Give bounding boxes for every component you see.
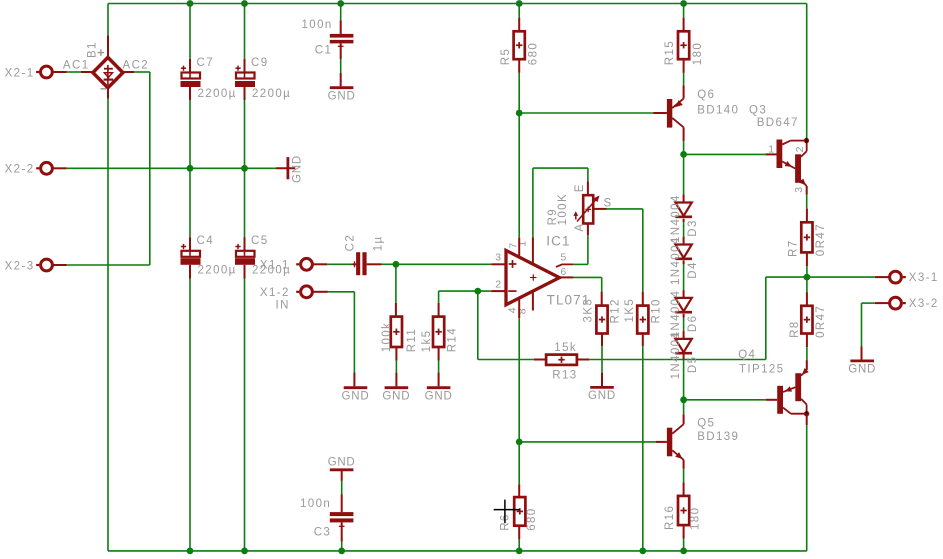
svg-text:TIP125: TIP125 <box>739 364 784 376</box>
svg-text:X2-3: X2-3 <box>5 260 35 272</box>
svg-text:GND: GND <box>292 155 304 183</box>
svg-text:6: 6 <box>560 266 567 278</box>
svg-text:Q3: Q3 <box>749 105 767 117</box>
svg-text:GND: GND <box>342 390 370 402</box>
svg-text:100k: 100k <box>381 322 393 353</box>
svg-text:R12: R12 <box>609 298 621 323</box>
svg-text:680: 680 <box>528 42 540 65</box>
svg-text:AC2: AC2 <box>123 60 150 72</box>
svg-text:IN: IN <box>275 300 289 312</box>
svg-text:GND: GND <box>848 364 876 376</box>
svg-text:BD647: BD647 <box>757 117 799 129</box>
svg-text:GND: GND <box>328 457 356 469</box>
svg-text:3K3: 3K3 <box>583 298 595 323</box>
svg-text:C7: C7 <box>197 57 215 69</box>
svg-text:R16: R16 <box>664 505 676 530</box>
svg-text:GND: GND <box>382 390 410 402</box>
svg-text:3: 3 <box>793 186 805 193</box>
svg-text:GND: GND <box>328 90 356 102</box>
svg-text:2: 2 <box>794 145 806 152</box>
svg-text:X2-1: X2-1 <box>5 67 35 79</box>
svg-text:R14: R14 <box>447 327 459 352</box>
svg-text:1N4004: 1N4004 <box>670 194 682 243</box>
svg-text:AC1: AC1 <box>63 60 90 72</box>
svg-text:3: 3 <box>495 252 502 264</box>
svg-text:2200µ: 2200µ <box>252 88 291 100</box>
svg-text:S: S <box>604 198 613 210</box>
svg-text:100n: 100n <box>300 498 331 510</box>
svg-text:5: 5 <box>560 252 567 264</box>
svg-text:100K: 100K <box>557 193 569 225</box>
svg-text:C2: C2 <box>345 234 357 252</box>
svg-text:GND: GND <box>425 390 453 402</box>
svg-text:180: 180 <box>692 42 704 65</box>
svg-text:IC1: IC1 <box>546 234 570 249</box>
svg-text:X3-1: X3-1 <box>909 272 939 284</box>
svg-text:1: 1 <box>768 143 775 155</box>
svg-text:Q6: Q6 <box>697 89 715 101</box>
svg-text:15k: 15k <box>554 342 577 354</box>
svg-text:0R47: 0R47 <box>815 305 827 338</box>
svg-text:X3-2: X3-2 <box>909 298 939 310</box>
svg-text:1N4004: 1N4004 <box>670 331 682 380</box>
svg-text:E: E <box>574 183 586 192</box>
svg-text:A: A <box>574 223 586 232</box>
svg-text:B1: B1 <box>87 41 99 58</box>
svg-text:1µ: 1µ <box>372 235 384 251</box>
svg-text:BD140: BD140 <box>697 105 739 117</box>
svg-text:C1: C1 <box>315 45 333 57</box>
svg-text:R7: R7 <box>788 239 800 257</box>
svg-text:100n: 100n <box>302 19 333 31</box>
svg-text:D3: D3 <box>687 219 699 237</box>
svg-text:R13: R13 <box>552 369 577 381</box>
svg-text:D4: D4 <box>687 261 699 279</box>
svg-text:C5: C5 <box>251 235 269 247</box>
svg-text:D6: D6 <box>687 315 699 333</box>
svg-text:D5: D5 <box>687 356 699 374</box>
svg-text:R5: R5 <box>500 48 512 66</box>
svg-text:Q4: Q4 <box>738 349 756 361</box>
svg-text:BD139: BD139 <box>697 431 739 443</box>
svg-text:680: 680 <box>526 507 538 530</box>
svg-text:C9: C9 <box>251 57 269 69</box>
svg-text:0R47: 0R47 <box>815 223 827 256</box>
svg-text:X1-1: X1-1 <box>260 259 290 271</box>
svg-text:X1-2: X1-2 <box>260 287 290 299</box>
svg-text:R11: R11 <box>406 328 418 352</box>
svg-text:180: 180 <box>690 507 702 530</box>
svg-text:2200µ: 2200µ <box>198 264 237 276</box>
svg-text:1K5: 1K5 <box>624 298 636 323</box>
svg-text:R10: R10 <box>651 298 663 323</box>
svg-text:R8: R8 <box>789 320 801 338</box>
svg-text:Q5: Q5 <box>697 418 715 430</box>
svg-text:2: 2 <box>495 278 502 290</box>
svg-text:C3: C3 <box>314 526 332 538</box>
svg-text:C4: C4 <box>197 235 215 247</box>
svg-text:1k5: 1k5 <box>421 330 433 353</box>
svg-text:X2-2: X2-2 <box>5 164 35 176</box>
svg-text:2200µ: 2200µ <box>198 88 237 100</box>
svg-text:GND: GND <box>588 390 616 402</box>
svg-text:R15: R15 <box>664 40 676 65</box>
svg-text:1N4004: 1N4004 <box>670 236 682 285</box>
